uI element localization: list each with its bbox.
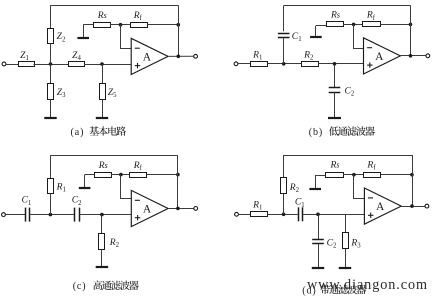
resistor R1 (c) [48, 179, 54, 194]
top feedback rail [51, 5, 179, 7]
resistor Z4 [69, 62, 85, 67]
svg-text:www.diangon.com: www.diangon.com [307, 277, 427, 293]
node: Rf right junction (c) [176, 173, 180, 177]
caption (c) 高通滤波器 [73, 281, 139, 293]
node: Rf right junction [177, 23, 181, 27]
node: R1/R2/C1 junction [282, 62, 286, 66]
wire R1 to R2 [268, 63, 302, 65]
resistor Z3 [48, 84, 54, 100]
wire Rs to Rf [110, 24, 130, 26]
capacitor C1 (c) [25, 208, 27, 222]
node: Rf right junction (d) [410, 173, 414, 177]
ground at Rs left (d) [315, 175, 317, 189]
top rail (b) [284, 5, 411, 7]
output terminal (c) [194, 207, 198, 211]
right vertical feedback wire (d) [412, 155, 414, 206]
op-amp A (c) [131, 190, 168, 226]
node: Rs/Rf junction (c) [119, 173, 123, 177]
node: C1/R1/C2 junction (c) [49, 213, 53, 217]
ground below C2 (b) [334, 92, 336, 118]
resistor R1 (d) [251, 212, 268, 217]
ground at Rs left end [83, 25, 85, 38]
node: output junction [177, 55, 181, 59]
resistor Rs (b) [327, 22, 344, 27]
right vertical feedback wire [178, 5, 180, 56]
node: Rs/Rf junction (d) [352, 173, 356, 177]
wire input to R1 [238, 63, 251, 65]
resistor R2 (d) [281, 178, 287, 194]
wire Rf to feedback node (d) [381, 174, 412, 176]
wire to inverting input (c) [121, 175, 132, 199]
right vertical feedback wire (b) [410, 5, 412, 55]
svg-text:Rs: Rs [330, 159, 340, 170]
svg-text:(a): (a) [71, 127, 85, 138]
resistor Rs (c) [95, 173, 112, 178]
svg-text:A: A [143, 51, 152, 63]
resistor R3 (d) [343, 233, 349, 249]
node: Rs/Rf junction (b) [352, 23, 356, 27]
capacitor C2 (b) [329, 87, 341, 89]
wire input to Z1 [6, 64, 18, 66]
op-amp A (b) [364, 38, 401, 74]
resistor Z1 [19, 62, 35, 67]
wire ground to Rs (c) [85, 174, 95, 176]
output wire (b) [400, 55, 426, 57]
wire Z2 bottom to node [50, 43, 52, 64]
wire to inverting input [121, 25, 132, 49]
wire input to R1 (d) [238, 214, 250, 216]
ground below R2 (c) [101, 250, 103, 268]
svg-text:(b): (b) [309, 127, 323, 138]
svg-text:Rs: Rs [330, 10, 340, 21]
resistor R1 (b) [251, 62, 268, 67]
svg-text:A: A [143, 203, 152, 215]
output terminal (d) [425, 204, 429, 208]
output terminal (a) [194, 54, 198, 58]
wire Rf to output node [147, 24, 178, 26]
node: Rs/Rf junction [119, 23, 123, 27]
wire Rf to feedback node (c) [147, 174, 178, 176]
svg-text:A: A [375, 51, 384, 63]
wire to inverting input (d) [354, 175, 365, 199]
ground below Z5 [102, 99, 104, 118]
ground below C2 (d) [318, 244, 320, 268]
wire ground to Rs [83, 24, 93, 26]
right vertical feedback wire (c) [177, 155, 179, 208]
resistor Z2 [48, 29, 54, 44]
svg-text:Rs: Rs [98, 160, 108, 171]
resistor R2 (b) [302, 62, 319, 67]
wire input to C1 (c) [5, 214, 25, 216]
input terminal (d) [235, 212, 239, 216]
capacitor C1 (b) [278, 33, 290, 35]
wire node to C2 [334, 64, 336, 88]
capacitor C2 (d) [312, 239, 324, 241]
capacitor C2 (c) [74, 208, 76, 222]
op-amp A (d) [364, 188, 401, 224]
resistor Rf (c) [130, 173, 147, 178]
output wire (d) [401, 206, 425, 208]
ground below Z3 [50, 99, 52, 118]
wire Rf to feedback node (b) [380, 24, 410, 26]
wire Rs to Rf (b) [343, 24, 363, 26]
wire C1 to C2 (c) [30, 214, 75, 216]
node: C2 junction (d) [316, 213, 320, 217]
wire node to R3 (d) [345, 214, 347, 232]
ground at Rs left (b) [315, 26, 317, 37]
resistor Rs (d) [326, 173, 344, 178]
top rail (d) [284, 155, 412, 157]
caption (d) 带通滤波器 [302, 285, 366, 297]
svg-text:(c): (c) [73, 281, 87, 292]
resistor Rf (d) [364, 173, 381, 178]
node: junction Z4/Z5 [100, 62, 104, 66]
caption (a) 基本电路 [71, 126, 127, 138]
wire C1 to node [283, 37, 285, 63]
wire ground to Rs (d) [315, 175, 325, 177]
node: output junction (b) [409, 54, 413, 58]
wire C1 to op-amp + (d) [303, 214, 365, 216]
wire Rs to Rf (d) [343, 174, 364, 176]
wire R1 to C1 (d) [268, 214, 298, 216]
wire R2 to node (d) [283, 194, 285, 214]
wire node to Z5 [102, 64, 104, 83]
wire top rail to C1 [283, 5, 285, 31]
wire Rs to Rf (c) [111, 174, 130, 176]
caption (b) 低通滤波器 [309, 126, 375, 138]
wire Z4 to op-amp + input [84, 64, 131, 66]
wire Z2 top to top rail [50, 5, 52, 28]
ground at Rs left (c) [84, 175, 86, 188]
input terminal (a) [2, 62, 6, 66]
wire Z1 to Z4 [34, 64, 69, 66]
node: R1/R2/C1 junction (d) [282, 213, 286, 217]
node: C2/R2 junction (c) [100, 213, 104, 217]
wire ground to Rs (b) [316, 25, 326, 27]
node: output junction (d) [410, 204, 414, 208]
output terminal (b) [426, 54, 430, 58]
wire R1 to node (c) [50, 194, 52, 215]
output wire [168, 55, 194, 57]
node: Rf right junction (b) [409, 23, 413, 27]
resistor Rf (b) [363, 22, 381, 27]
op-amp A (a) [131, 38, 168, 74]
top rail (c) [50, 155, 177, 157]
output wire (c) [168, 208, 194, 210]
resistor Rf [131, 23, 148, 28]
svg-text:Rs: Rs [97, 10, 107, 21]
input terminal (c) [2, 213, 6, 217]
capacitor C1 (d) [298, 207, 300, 221]
resistor R2 (c) [99, 234, 105, 250]
resistor Z5 [100, 84, 106, 100]
wire R1 top to rail (c) [50, 155, 52, 178]
wire node to C2 (d) [318, 214, 320, 239]
wire R2 top to rail (d) [283, 155, 285, 178]
wire C2 to op-amp + (c) [80, 214, 132, 216]
resistor Rs [94, 23, 111, 28]
node: R2/C2 junction [333, 62, 337, 66]
wire to inverting input (b) [354, 25, 364, 49]
input terminal (b) [234, 62, 238, 66]
wire node to Z3 [50, 64, 52, 83]
wire R2 to op-amp + [319, 63, 364, 65]
wire node to R2 (c) [101, 215, 103, 234]
svg-text:A: A [376, 201, 385, 213]
node: output junction (c) [176, 207, 180, 211]
node: junction Z1/Z2/Z3/Z4 [49, 62, 53, 66]
ground below R3 (d) [345, 249, 347, 268]
